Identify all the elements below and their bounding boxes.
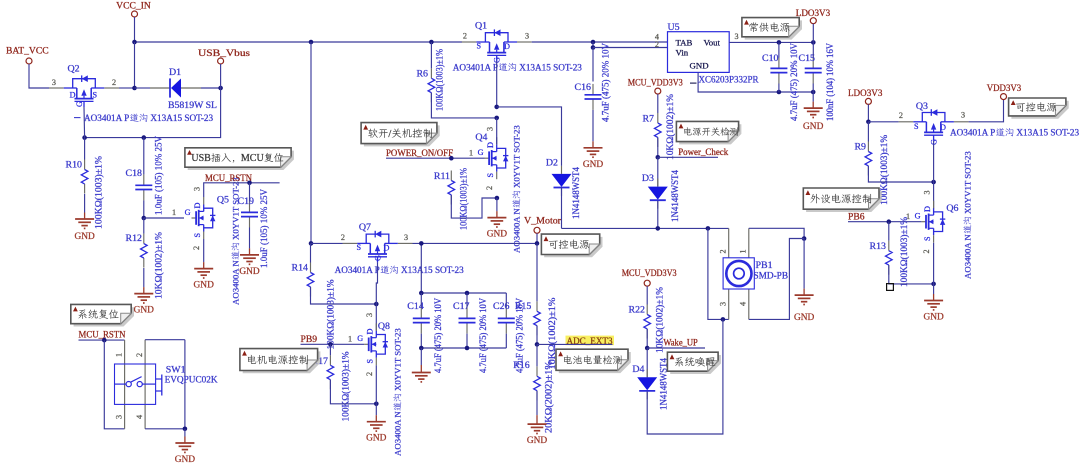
svg-text:1: 1 xyxy=(739,249,748,253)
wire R15 bottom xyxy=(536,326,538,345)
svg-text:X0YV1T SOT-23: X0YV1T SOT-23 xyxy=(393,328,403,391)
wire Vin drop xyxy=(592,42,594,48)
svg-text:S: S xyxy=(476,42,481,51)
ground GND under R16 xyxy=(527,415,548,446)
svg-text:GND: GND xyxy=(690,61,709,71)
svg-text:3: 3 xyxy=(718,302,727,306)
wire R10 top xyxy=(84,138,86,160)
wire SW1 right loop top xyxy=(145,339,185,341)
wire R22 top xyxy=(646,286,648,304)
svg-text:AO3400A N: AO3400A N xyxy=(963,234,973,279)
value label Q6 xyxy=(963,151,973,279)
wire detect rail xyxy=(562,227,729,229)
svg-text:MCU_RSTN: MCU_RSTN xyxy=(79,330,126,341)
ground GND under PB1 xyxy=(794,289,815,324)
wire R11 bottom xyxy=(451,195,497,218)
transistor Q4 (AO3400A NMOS) xyxy=(475,127,508,190)
junction Q8 source node xyxy=(374,402,379,407)
junction Vout at C15 xyxy=(811,40,816,45)
svg-text:4.7uF (475) 20% 10V: 4.7uF (475) 20% 10V xyxy=(433,298,444,373)
wire ADC_EXT3 xyxy=(537,343,613,345)
diode D3 (1N4148WS) xyxy=(642,170,681,222)
svg-text:TAB: TAB xyxy=(676,38,693,48)
wire rail to Q7 xyxy=(311,242,343,244)
svg-text:Q5: Q5 xyxy=(217,195,229,206)
ground GND under R10 xyxy=(74,213,95,243)
svg-text:Q6: Q6 xyxy=(946,203,958,214)
capacitor C16 xyxy=(575,43,612,122)
wire C16 bottom xyxy=(592,110,594,141)
svg-text:R7: R7 xyxy=(642,114,654,125)
svg-text:MCU_VDD3V3: MCU_VDD3V3 xyxy=(628,77,683,88)
svg-text:1.0uF (105) 10% 25V: 1.0uF (105) 10% 25V xyxy=(259,189,270,268)
wire C18 bottom xyxy=(143,200,145,218)
wire VCC node to D1 cathode xyxy=(135,87,151,89)
junction GND rail at C15 xyxy=(811,90,816,95)
wire gate node to D2 xyxy=(497,107,562,166)
svg-text:D: D xyxy=(366,329,375,335)
svg-text:S: S xyxy=(923,236,932,241)
wire R17 top xyxy=(329,344,331,355)
transistor Q7 (AO3401A PMOS) xyxy=(341,222,413,262)
svg-text:R15: R15 xyxy=(515,301,532,312)
svg-text:Q7: Q7 xyxy=(359,222,371,233)
resistor R15 xyxy=(515,298,558,370)
svg-text:3: 3 xyxy=(735,32,739,41)
wire MCU_RSTN to SW1 xyxy=(79,339,125,341)
svg-text:,: , xyxy=(232,153,235,164)
wire R12 to GND xyxy=(143,268,145,287)
svg-text:AO3401A P: AO3401A P xyxy=(84,113,129,123)
svg-text:R12: R12 xyxy=(126,233,143,244)
svg-text:Q8: Q8 xyxy=(378,321,390,332)
wire C17 top xyxy=(466,293,468,307)
wire C26 top xyxy=(505,293,507,307)
svg-text:4: 4 xyxy=(135,415,144,419)
svg-text:2: 2 xyxy=(192,246,201,250)
junction SW1 GND node xyxy=(183,427,188,432)
ground GND under C15 rail xyxy=(803,102,824,133)
wire R9 bottom xyxy=(868,166,933,182)
port VDD3V3 xyxy=(1001,94,1007,100)
svg-text:2: 2 xyxy=(922,249,931,253)
wire R15 top xyxy=(536,243,538,301)
svg-text:/: / xyxy=(388,129,391,140)
resistor R10 xyxy=(66,156,105,229)
svg-text:X0YV1T SOT-23: X0YV1T SOT-23 xyxy=(512,125,522,188)
svg-text:3: 3 xyxy=(404,233,408,242)
svg-text:D2: D2 xyxy=(546,158,558,169)
junction cap bottom tie C17 xyxy=(465,346,470,351)
svg-text:R22: R22 xyxy=(629,305,646,316)
svg-text:100KΩ(1003)±1%: 100KΩ(1003)±1% xyxy=(899,217,910,287)
svg-text:S: S xyxy=(914,122,919,131)
resistor R14 xyxy=(292,263,337,350)
wire R13 bottom xyxy=(889,265,934,284)
highlight ADC_EXT3 xyxy=(566,336,615,346)
svg-text:G: G xyxy=(185,208,191,217)
svg-text:AO3400A N: AO3400A N xyxy=(512,208,522,253)
resistor R9 xyxy=(854,135,890,205)
svg-text:3: 3 xyxy=(525,32,529,41)
IC U5 (XC6203P332PR) xyxy=(655,22,759,86)
wire R14 top xyxy=(310,243,312,262)
transistor Q3 (AO3401A PMOS) xyxy=(899,101,969,145)
svg-text:GND: GND xyxy=(803,122,824,132)
junction gate rail at R10 xyxy=(82,135,87,140)
svg-text:VDD3V3: VDD3V3 xyxy=(987,83,1022,94)
port LDO3V3 right xyxy=(865,98,871,104)
wire PB1 pin3 xyxy=(728,289,730,319)
svg-text:X0YV1T SOT-23: X0YV1T SOT-23 xyxy=(963,151,973,214)
svg-text:SMD-PB: SMD-PB xyxy=(754,271,789,282)
wire C19 top xyxy=(249,183,251,202)
wire D3 top xyxy=(657,157,659,186)
svg-text:AO3400A N: AO3400A N xyxy=(393,411,403,456)
svg-text:GND: GND xyxy=(74,232,95,242)
port VCC_IN xyxy=(132,11,138,17)
wire USB_Vbus port down xyxy=(220,64,222,88)
diode D4 (1N4148WS) xyxy=(632,358,669,410)
svg-text:XC6203P332PR: XC6203P332PR xyxy=(699,75,759,86)
svg-text:S: S xyxy=(366,359,375,364)
svg-text:R14: R14 xyxy=(292,263,309,274)
callout note system reset xyxy=(71,304,134,326)
diode D2 (1N4148WS) xyxy=(546,158,582,220)
value label Q2 xyxy=(74,117,81,119)
svg-text:D3: D3 xyxy=(642,173,654,184)
resistor R16 xyxy=(513,360,554,433)
junction Vout at C10 xyxy=(777,40,782,45)
wire Q8 drain up xyxy=(375,304,377,331)
svg-text:2: 2 xyxy=(463,32,467,41)
wire C18 top xyxy=(143,138,145,175)
junction SW1 left node xyxy=(102,338,107,343)
wire SW1 pin1-3 xyxy=(124,340,126,429)
svg-text:VCC_IN: VCC_IN xyxy=(116,1,151,12)
junction V_Motor node xyxy=(535,241,540,246)
junction D4 rail node xyxy=(721,317,726,322)
capacitor C18 xyxy=(126,136,165,215)
svg-text:C16: C16 xyxy=(575,82,592,93)
capacitor C26 xyxy=(493,298,526,373)
svg-text:GND: GND xyxy=(794,313,815,323)
ground GND under Q4 xyxy=(487,211,508,240)
svg-text:C26: C26 xyxy=(493,301,510,312)
wire C16 top xyxy=(592,48,594,82)
wire PB1 pin4 xyxy=(748,289,750,319)
wire cap tie to GND xyxy=(420,348,422,365)
svg-text:R16: R16 xyxy=(513,360,530,371)
svg-text:GND: GND xyxy=(175,455,196,465)
wire cap top tie xyxy=(421,292,506,294)
svg-text:Q3: Q3 xyxy=(916,101,928,112)
svg-text:3: 3 xyxy=(961,111,965,120)
svg-text:10KΩ(1002)±1%: 10KΩ(1002)±1% xyxy=(665,94,676,160)
capacitor C14 xyxy=(407,298,444,373)
svg-text:R6: R6 xyxy=(416,69,428,80)
wire cap bottom tie xyxy=(421,347,506,349)
svg-text:R13: R13 xyxy=(870,241,887,252)
wire PB6 rail xyxy=(848,221,921,223)
wire D1 to USB_Vbus node xyxy=(201,87,221,89)
svg-text:POWER_ON/OFF: POWER_ON/OFF xyxy=(386,148,453,159)
svg-text:GND: GND xyxy=(239,267,260,277)
svg-text:C18: C18 xyxy=(126,168,143,179)
junction cap bottom tie C14 xyxy=(419,346,424,351)
wire to Q3 pin2 xyxy=(868,121,898,123)
capacitor C10 xyxy=(762,43,800,121)
wire Q4 drain up xyxy=(496,118,498,145)
svg-text:LDO3V3: LDO3V3 xyxy=(796,8,831,19)
svg-text:Wake_UP: Wake_UP xyxy=(663,338,697,348)
junction Vin node xyxy=(591,45,596,50)
wire R13 top xyxy=(888,222,890,241)
svg-text:S: S xyxy=(193,233,202,238)
value label Q4 xyxy=(512,125,522,253)
svg-text:3: 3 xyxy=(486,127,495,131)
wire Q5 source to GND xyxy=(203,239,205,262)
svg-text:100KΩ(1003)±1%: 100KΩ(1003)±1% xyxy=(326,280,337,350)
wire Q1 pin3 to U5 xyxy=(532,41,668,43)
wire Power_Check xyxy=(658,156,718,158)
svg-text:USB: USB xyxy=(191,153,211,164)
ground GND under C16 xyxy=(583,141,604,170)
svg-text:2: 2 xyxy=(112,78,116,87)
wire SW1 to GND xyxy=(184,429,186,437)
port MCU_VDD3V3 (R22) xyxy=(644,280,650,286)
wire R16 bottom xyxy=(536,391,538,415)
wire Q3 gate down xyxy=(933,141,935,182)
ground GND under Q8 xyxy=(366,415,387,444)
svg-text:S: S xyxy=(356,243,361,252)
wire SW1 right loop bottom xyxy=(145,428,185,430)
svg-text:ADC_EXT3: ADC_EXT3 xyxy=(567,336,613,347)
port BAT_VCC xyxy=(26,58,32,64)
wire R16 top xyxy=(536,344,538,366)
wire PB1 pin1 xyxy=(748,228,750,257)
svg-text:GND: GND xyxy=(583,160,604,170)
svg-text:3: 3 xyxy=(365,313,374,317)
junction rail at Vin drop xyxy=(591,40,596,45)
diode D1 (B5819W) xyxy=(150,87,170,89)
callout note power switch detect xyxy=(676,121,741,144)
wire cap tie drop xyxy=(420,243,422,293)
wire Q6 to GND xyxy=(933,284,935,294)
svg-text:BAT_VCC: BAT_VCC xyxy=(6,46,49,57)
svg-text:R10: R10 xyxy=(66,160,83,171)
wire down to Q7 rail xyxy=(310,42,312,243)
svg-text:G: G xyxy=(75,101,84,107)
wire R17 bottom xyxy=(330,380,376,404)
resistor R22 xyxy=(629,287,666,353)
resistor R13 xyxy=(870,217,910,287)
svg-text:D: D xyxy=(193,203,202,209)
transistor Q8 (AO3400A NMOS) xyxy=(357,313,390,376)
svg-text:G: G xyxy=(373,255,382,261)
callout note battery level detect xyxy=(556,349,631,373)
callout note USB insert MCU reset xyxy=(185,148,294,170)
junction top rail at VCC_IN xyxy=(132,40,137,45)
svg-text:GND: GND xyxy=(487,230,508,240)
svg-text:G: G xyxy=(915,212,921,221)
wire R7 bottom xyxy=(657,137,659,157)
junction Q4 source node xyxy=(495,196,500,201)
wire Q2 gate down xyxy=(83,107,86,138)
capacitor C19 xyxy=(238,189,270,268)
wire C10 top xyxy=(778,42,780,57)
wire R6 top xyxy=(430,42,432,68)
wire Wake_UP xyxy=(647,347,705,349)
resistor R6 xyxy=(416,49,445,111)
callout note peripheral power control xyxy=(803,188,882,212)
wire POWER_ON/OFF xyxy=(386,157,485,159)
junction Wake_UP node xyxy=(645,346,650,351)
transistor Q2 (AO3401A PMOS) xyxy=(49,64,119,108)
svg-text:Q4: Q4 xyxy=(475,132,487,143)
svg-text:4.7uF (475) 20% 10V: 4.7uF (475) 20% 10V xyxy=(478,298,489,373)
svg-text:2: 2 xyxy=(485,186,494,190)
resistor R12 xyxy=(126,232,165,299)
svg-text:2: 2 xyxy=(365,372,374,376)
ground GND under C14 xyxy=(412,365,431,382)
svg-text:D1: D1 xyxy=(169,67,181,78)
svg-text:GND: GND xyxy=(366,434,387,444)
wire R10 to GND xyxy=(84,194,86,213)
svg-text:C19: C19 xyxy=(238,196,255,207)
svg-text:1: 1 xyxy=(469,149,473,158)
wire Q8 source to GND xyxy=(375,404,377,415)
svg-text:X0YV1T SOT-23: X0YV1T SOT-23 xyxy=(231,177,241,240)
svg-text:Vout: Vout xyxy=(704,38,721,48)
wire C26 bottom xyxy=(505,334,507,348)
value label Q8 xyxy=(393,328,403,456)
junction R17 top node xyxy=(328,342,333,347)
ground GND under C19 xyxy=(239,248,260,277)
transistor Q5 (AO3400A NMOS) xyxy=(185,187,229,250)
junction PB1 GND node xyxy=(802,236,807,241)
svg-text:MCU_VDD3V3: MCU_VDD3V3 xyxy=(622,268,677,279)
wire Q6 drain up xyxy=(933,182,935,209)
svg-text:Q2: Q2 xyxy=(68,64,80,75)
wire Q4 source to GND xyxy=(496,198,498,211)
push button PB1 (SMD-PB) xyxy=(718,249,788,306)
wire USB node down to gate rail xyxy=(85,88,221,138)
switch SW1 (EVQPUC02K) xyxy=(115,353,218,419)
svg-text:D: D xyxy=(384,244,390,253)
wire C15 bottom xyxy=(812,84,814,93)
svg-text:1: 1 xyxy=(115,353,124,357)
wire MCU_RSTN rail xyxy=(204,183,280,197)
svg-text:AO3401A P: AO3401A P xyxy=(453,62,498,72)
wire Q3 to VDD3V3 xyxy=(969,100,1004,122)
svg-text:Vin: Vin xyxy=(676,48,689,58)
svg-text:G: G xyxy=(357,334,363,343)
wire Vout xyxy=(729,41,813,43)
svg-text:3: 3 xyxy=(922,190,931,194)
svg-text:GND: GND xyxy=(134,306,155,316)
wire C19 bottom xyxy=(249,228,251,249)
junction USB_Vbus node xyxy=(218,86,223,91)
svg-text:2: 2 xyxy=(718,249,727,253)
svg-text:X13A15 SOT-23: X13A15 SOT-23 xyxy=(150,113,213,123)
svg-text:100KΩ(1003)±1%: 100KΩ(1003)±1% xyxy=(340,352,351,422)
wire Q7 gate down xyxy=(376,262,377,304)
svg-text:3: 3 xyxy=(115,415,124,419)
ground GND under Q6 xyxy=(923,294,944,323)
wire R14 bottom xyxy=(311,287,377,304)
capacitor C15 xyxy=(799,43,836,121)
junction Q1 gate - R6 node xyxy=(494,116,499,121)
svg-text:100KΩ(1003)±1%: 100KΩ(1003)±1% xyxy=(459,168,470,230)
wire PB9 rail xyxy=(301,343,365,345)
svg-text:X13A15 SOT-23: X13A15 SOT-23 xyxy=(519,62,582,72)
svg-text:1N4148WST4: 1N4148WST4 xyxy=(572,167,582,219)
wire VCC_IN down to Q2 node xyxy=(134,42,136,88)
svg-text:GND: GND xyxy=(194,281,215,291)
junction Q6 source node xyxy=(931,282,936,287)
svg-text:Power_Check: Power_Check xyxy=(678,147,728,157)
ground GND under Q5 xyxy=(194,262,215,291)
wire Q6 source down xyxy=(933,243,935,284)
svg-text:S: S xyxy=(93,91,98,100)
svg-text:GND: GND xyxy=(527,436,548,446)
wire R22 bottom xyxy=(646,329,648,348)
wire R12 top xyxy=(143,218,145,234)
svg-text:D4: D4 xyxy=(632,364,644,375)
junction MCU_RSTN at C19 xyxy=(247,181,252,186)
svg-text:EVQPUC02K: EVQPUC02K xyxy=(165,374,218,385)
svg-text:R11: R11 xyxy=(434,171,450,182)
svg-text:X13A15 SOT-23: X13A15 SOT-23 xyxy=(1016,128,1079,138)
svg-text:100nF (104) 10% 16V: 100nF (104) 10% 16V xyxy=(825,43,836,121)
wire C14 top xyxy=(420,293,422,307)
junction R11 top node xyxy=(449,156,454,161)
junction R13 top node xyxy=(887,219,892,224)
junction rail at D3 xyxy=(656,226,661,231)
wire PB1 to GND xyxy=(803,239,805,289)
wire BAT_VCC to Q2 pin 3 xyxy=(29,64,49,88)
svg-text:2: 2 xyxy=(341,233,345,242)
wire C14 bottom xyxy=(420,334,422,348)
junction Q7 rail left xyxy=(309,241,314,246)
wire C10 bottom xyxy=(778,84,780,93)
port USB_Vbus xyxy=(218,58,224,64)
svg-text:AO3401A P: AO3401A P xyxy=(950,128,995,138)
junction GND rail at C10 xyxy=(777,90,782,95)
callout note motor power control xyxy=(240,349,321,374)
svg-text:3: 3 xyxy=(193,187,202,191)
svg-text:PB9: PB9 xyxy=(301,334,318,345)
junction V rail at cap drop xyxy=(419,241,424,246)
wire D4 top xyxy=(646,348,648,377)
wire Q7 to V_Motor rail xyxy=(413,242,538,244)
svg-text:U5: U5 xyxy=(668,22,680,33)
wire PB1 right loop top xyxy=(749,228,804,238)
svg-text:1.0uF (105) 10% 25V: 1.0uF (105) 10% 25V xyxy=(154,136,165,215)
wire D4 bottom loop xyxy=(647,319,723,434)
svg-text:3: 3 xyxy=(52,78,56,87)
wire C15 top xyxy=(812,42,814,57)
port MCU_VDD3V3 (R7) xyxy=(655,88,661,94)
svg-text:D: D xyxy=(486,142,495,148)
wire D2 to V rail xyxy=(561,188,563,229)
svg-text:100KΩ(1003)±1%: 100KΩ(1003)±1% xyxy=(94,156,105,229)
svg-text:C15: C15 xyxy=(799,53,816,64)
svg-text:LDO3V3: LDO3V3 xyxy=(848,88,883,99)
svg-text:D: D xyxy=(504,42,510,51)
svg-text:X13A15 SOT-23: X13A15 SOT-23 xyxy=(401,265,464,275)
